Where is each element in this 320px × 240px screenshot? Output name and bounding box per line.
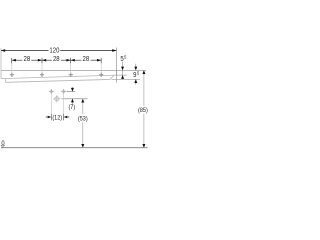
dim 9.5 vertical <box>135 64 137 85</box>
dim (85) bottom arrow (down onto floor) <box>142 144 145 148</box>
svg-text:(85): (85) <box>138 108 148 114</box>
dim 5.5 bottom arrow (up onto R2) <box>121 75 124 79</box>
floor line <box>1 147 148 149</box>
datum triangle symbol <box>1 145 5 147</box>
extension line left (x=1) <box>0 48 2 70</box>
reference line R2 (5.5 bottom) <box>116 74 126 76</box>
svg-text:(7): (7) <box>68 105 75 111</box>
tap hole cross 3 <box>69 73 73 77</box>
dimension 120 arrow left <box>1 49 5 52</box>
washbasin slab right edge <box>115 70 117 75</box>
tap hole cross 4 <box>99 73 103 77</box>
dim (53) vertical <box>82 101 84 144</box>
reference line L2 (drain level) <box>61 98 87 100</box>
washbasin slab top edge <box>1 69 116 71</box>
svg-text:28: 28 <box>83 56 90 64</box>
reference line R3 (9.5 bottom) <box>112 78 141 80</box>
tap hole cross 1 <box>10 73 14 77</box>
reference line R1 (slab top extended right) <box>116 69 146 71</box>
dim (7) bottom arrow (up onto L2) <box>71 99 74 103</box>
dim 5.5 vertical <box>122 62 124 79</box>
extension below plus A <box>50 94 52 114</box>
28 arrow at tick4 <box>97 59 101 62</box>
dim (53) bottom arrow (down onto floor) <box>81 144 84 148</box>
svg-text:(12): (12) <box>52 115 62 121</box>
dim (12) left arrow with tail <box>46 116 48 118</box>
svg-text:(53): (53) <box>78 116 88 122</box>
svg-text:120: 120 <box>49 47 59 55</box>
dim 9.5 top arrow (down onto R1) <box>134 67 137 71</box>
28 bowtie arrows at tick3 <box>66 59 70 62</box>
dimension 28 first segment line <box>12 59 42 61</box>
svg-text:0: 0 <box>1 140 5 148</box>
28 arrow at tick1 <box>12 59 16 62</box>
tick extension 2 (x=42) <box>41 58 43 63</box>
supply plus mark B (4-point star) <box>61 88 67 94</box>
dim (7) top arrow (down onto L1) <box>71 88 74 92</box>
svg-text:28: 28 <box>53 56 60 64</box>
dimension 120 arrow right <box>112 49 116 52</box>
extension below plus B <box>63 94 65 114</box>
dim (85) vertical <box>143 73 145 145</box>
dim (7) vertical <box>71 87 73 104</box>
svg-text:28: 28 <box>24 56 31 64</box>
tick extension 4 (x=101.2) <box>100 58 102 63</box>
reference line L1 (supply level) <box>67 91 76 93</box>
drain symbol circle-cross <box>53 95 60 102</box>
dimension 28 third segment line <box>71 59 102 61</box>
washbasin bowl body below slab <box>6 75 115 82</box>
supply plus mark A (4-point star) <box>48 88 54 94</box>
dim (12) right arrow with tail <box>68 116 70 118</box>
dim (53) top arrow (up onto L2) <box>81 99 84 103</box>
extension line right (x=116.4) <box>115 48 117 83</box>
dimension 28 second segment line <box>42 59 71 61</box>
tick extension 1 (x=11.7) <box>11 58 13 63</box>
dimension 120 line <box>1 50 116 52</box>
dim 9.5 bottom arrow (up onto R3) <box>134 79 137 83</box>
washbasin slab left edge <box>0 70 2 78</box>
dim (85) top arrow (up onto R1) <box>142 70 145 74</box>
tap hole cross 2 <box>40 73 44 77</box>
28 bowtie arrows at tick2 <box>38 59 42 62</box>
tick extension 3 (x=70.6) <box>70 58 72 63</box>
dim 5.5 top arrow (down onto R1) <box>121 67 124 71</box>
washbasin slab bottom edge (sloped) <box>1 75 116 79</box>
